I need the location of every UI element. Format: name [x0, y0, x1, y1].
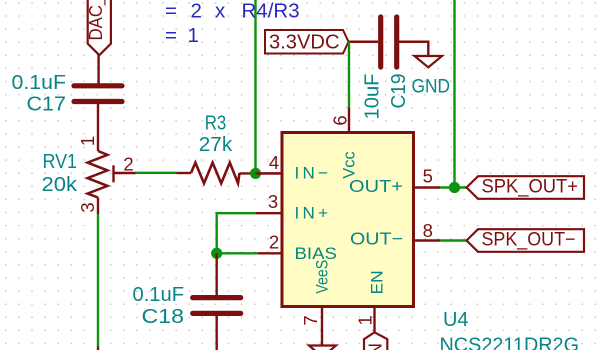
- svg-text:R3: R3: [205, 112, 227, 135]
- pin 4 stub (IN-): [256, 172, 283, 174]
- pin 7 stub (VeeS): [321, 307, 323, 346]
- resistor R3 27k: [177, 163, 283, 184]
- svg-text:C17: C17: [27, 93, 67, 116]
- svg-text:RV1: RV1: [43, 150, 78, 173]
- capacitor C17: [74, 86, 122, 151]
- svg-text:4: 4: [269, 152, 279, 173]
- svg-text:C18: C18: [142, 305, 185, 328]
- svg-text:EN: EN: [365, 343, 385, 350]
- pin 2 stub (BIAS): [258, 252, 282, 254]
- ground symbol under pin 7: [309, 346, 336, 350]
- capacitor C19: [381, 17, 429, 67]
- svg-text:Vcc: Vcc: [340, 151, 359, 179]
- svg-text:DAC_OU: DAC_OU: [86, 0, 107, 41]
- power flag 3.3VDC: [265, 30, 349, 54]
- svg-text:2: 2: [269, 231, 279, 252]
- junction at BIAS node: [211, 248, 222, 259]
- svg-text:3.3VDC: 3.3VDC: [269, 31, 340, 54]
- pin 8 stub (OUT-): [414, 239, 441, 241]
- svg-text:VeeS: VeeS: [313, 260, 332, 294]
- svg-text:6: 6: [329, 115, 350, 125]
- pin 1 stub (EN): [373, 307, 375, 333]
- svg-text:8: 8: [423, 220, 433, 241]
- junction at IN- node: [250, 168, 261, 179]
- pin 3 stub (IN+): [256, 212, 282, 214]
- wire: 3.3VDC to C19: [349, 41, 379, 43]
- wire: IN+ net corner: [217, 213, 256, 253]
- hierarchical label DAC_ (pointing down): [86, 0, 111, 55]
- svg-text:20k: 20k: [42, 173, 78, 196]
- svg-text:1: 1: [355, 315, 376, 325]
- svg-text:10uF: 10uF: [361, 74, 384, 120]
- wire: BIAS junction to pin 2: [217, 252, 258, 254]
- svg-text:C19: C19: [387, 74, 410, 109]
- potentiometer RV1 20k: [88, 151, 136, 214]
- svg-text:0.1uF: 0.1uF: [133, 283, 185, 306]
- svg-text:U4: U4: [443, 308, 469, 331]
- svg-text:SPK_OUT+: SPK_OUT+: [482, 177, 579, 198]
- wire: label to C17: [97, 55, 99, 84]
- svg-text:SPK_OUT−: SPK_OUT−: [482, 230, 576, 251]
- svg-text:3: 3: [268, 191, 278, 212]
- svg-text:EN: EN: [368, 270, 387, 294]
- pin 5 stub (OUT+): [414, 186, 441, 188]
- hierarchical label SPK_OUT+: [467, 176, 585, 199]
- wire: RV1 pin3 down to bottom edge: [97, 214, 99, 347]
- svg-text:27k: 27k: [199, 133, 233, 156]
- wire: pin 8 to SPK_OUT-: [440, 239, 468, 241]
- svg-text:NCS2211DR2G: NCS2211DR2G: [440, 335, 580, 350]
- wire: pin 5 to SPK_OUT+: [440, 186, 467, 188]
- capacitor C18: [193, 253, 241, 350]
- svg-text:1: 1: [77, 136, 98, 146]
- wire: red tip at bottom of left net: [97, 347, 99, 350]
- svg-text:OUT+: OUT+: [349, 176, 403, 196]
- wire: 3.3VDC down to Vcc pin 6: [348, 42, 350, 108]
- op-amp U1 body (NCS2211): [282, 133, 414, 307]
- hierarchical label EN (pointing up, clipped at bottom): [364, 332, 387, 350]
- wire: long vertical net from top to IN- junction: [254, 0, 256, 173]
- svg-text:GND: GND: [412, 76, 451, 97]
- svg-text:0.1uF: 0.1uF: [12, 71, 67, 94]
- svg-text:3: 3: [77, 202, 98, 212]
- svg-text:7: 7: [300, 315, 321, 325]
- svg-text:OUT−: OUT−: [350, 229, 403, 249]
- wire: RV1 wiper to R3: [136, 172, 177, 174]
- ground symbol near C19: [415, 56, 443, 67]
- junction at OUT+ node: [449, 182, 460, 193]
- pin 6 stub (Vcc): [348, 108, 350, 133]
- svg-text:2: 2: [123, 154, 133, 175]
- wire: long vertical net from top to OUT+ junction: [453, 0, 455, 188]
- svg-text:5: 5: [423, 166, 433, 187]
- hierarchical label SPK_OUT-: [467, 229, 585, 252]
